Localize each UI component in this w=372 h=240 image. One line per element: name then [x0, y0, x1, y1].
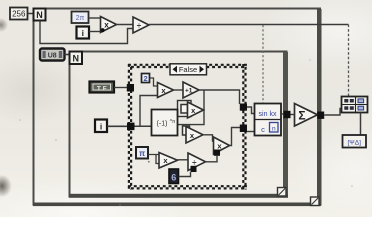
wire 2 to multiply [150, 78, 158, 86]
constant 6 [169, 169, 179, 184]
x4 lower input terminal [214, 150, 220, 156]
svg-text:(-1): (-1) [157, 121, 168, 128]
inner loop N terminal [70, 52, 83, 65]
svg-text:N: N [36, 10, 43, 20]
svg-text:256: 256 [12, 10, 26, 19]
wire +1 branch down past x2 [178, 90, 205, 129]
divide node (top chain) [133, 17, 149, 33]
constant pi [136, 147, 148, 159]
multiply x2 [188, 102, 204, 118]
wire +1 out right and down to tunnel [199, 90, 240, 104]
case output tunnel upper [240, 104, 247, 111]
case output tunnel lower [240, 125, 247, 133]
wire 2pi to multiply [89, 17, 103, 19]
boolean constant TF [90, 82, 115, 93]
case selector label "False" [170, 64, 207, 75]
constant U8 [40, 49, 65, 61]
wire tunnel to sigma [291, 114, 295, 116]
multiply x1 (2*i) [158, 83, 174, 98]
increment +1 node [183, 82, 199, 98]
wire sin kx to loop tunnel [281, 113, 284, 115]
svg-text:÷: ÷ [192, 158, 197, 167]
svg-text:n: n [272, 125, 276, 132]
wire x1 to +1 [174, 89, 184, 91]
wire TF to case selector [114, 87, 128, 89]
wire x5 to divide2 [178, 159, 189, 161]
svg-text:π: π [139, 149, 145, 158]
iteration terminal i (inner loop) [95, 120, 107, 133]
summation node sigma [295, 104, 318, 127]
svg-text:Σ: Σ [298, 108, 305, 122]
(-1)^n box [152, 110, 178, 136]
constant 2pi [72, 12, 89, 24]
build array node [342, 97, 368, 113]
wire lower tunnel to sin kx [247, 131, 255, 133]
input rectangle of multiply x2 [178, 101, 192, 117]
case selector terminal [127, 84, 134, 92]
svg-text:sin kx: sin kx [259, 111, 277, 118]
small terminal square [181, 105, 188, 114]
svg-text:[ΨΔ]: [ΨΔ] [348, 139, 362, 146]
svg-text:i: i [100, 121, 102, 131]
wire i to multiply [89, 31, 102, 33]
wire branch up to multiply [140, 96, 158, 127]
wire x3 to x4 [203, 135, 214, 141]
svg-text:i: i [82, 28, 84, 38]
multiply node (top chain) [101, 17, 117, 33]
outer for loop frame [33, 9, 322, 207]
wire to build array [324, 109, 341, 116]
multiply x4 (output) [214, 137, 230, 154]
svg-text:+1: +1 [185, 88, 193, 95]
inner loop tunnel [284, 111, 291, 118]
sin kx subVI [255, 104, 282, 136]
wire divide2 out to x4 lower input [206, 156, 218, 162]
divide2 node [188, 153, 206, 171]
outer loop resize corner [311, 197, 320, 206]
svg-text:False: False [179, 65, 197, 74]
svg-text:x: x [104, 21, 109, 30]
wire i to case tunnel [107, 125, 128, 127]
iteration terminal i (outer loop) [77, 27, 90, 39]
svg-text:c: c [261, 125, 265, 134]
graph indicator terminal [DBL] [343, 135, 367, 148]
wire pi to x5 [148, 155, 159, 164]
wire upper tunnel to sin kx [247, 107, 255, 114]
multiply x3 [186, 127, 203, 144]
svg-text:^n: ^n [170, 119, 176, 125]
svg-text:2: 2 [144, 74, 148, 83]
wire tunnel to (-1)^n [135, 125, 152, 127]
constant 256 [10, 8, 28, 20]
main phase wire to right [149, 24, 349, 26]
dashed branch down to sin kx input [262, 25, 264, 104]
case input tunnel [127, 123, 135, 131]
constant 2 [142, 74, 150, 84]
inner loop resize corner [278, 188, 287, 197]
inner for loop frame (loop 2) [69, 52, 288, 198]
outer loop N terminal [34, 9, 46, 21]
outer loop tunnel [317, 112, 324, 119]
svg-text:U8: U8 [48, 53, 57, 60]
wire U8 to N [65, 54, 70, 56]
small terminal square on x3 [183, 126, 190, 135]
wire 6 to divide2 lower [179, 172, 191, 177]
wire build array down to indicator [360, 113, 362, 136]
dashed wire down to build array [348, 25, 350, 97]
case structure checkered border [128, 64, 247, 190]
svg-text:÷: ÷ [137, 21, 142, 30]
paper speckles [19, 59, 353, 206]
divide2 lower input terminal [191, 166, 197, 172]
wire 256 to N [28, 13, 34, 15]
multiply x5 [159, 153, 178, 169]
coercion dot [101, 28, 105, 32]
wire x4 out to case tunnel [230, 128, 241, 146]
svg-text:2π: 2π [76, 15, 85, 22]
wire multiply to divide [117, 24, 134, 26]
wire N value down to divide lower input [40, 21, 134, 44]
svg-text:6: 6 [171, 172, 176, 182]
svg-text:T F: T F [97, 85, 107, 92]
svg-text:N: N [73, 53, 80, 63]
